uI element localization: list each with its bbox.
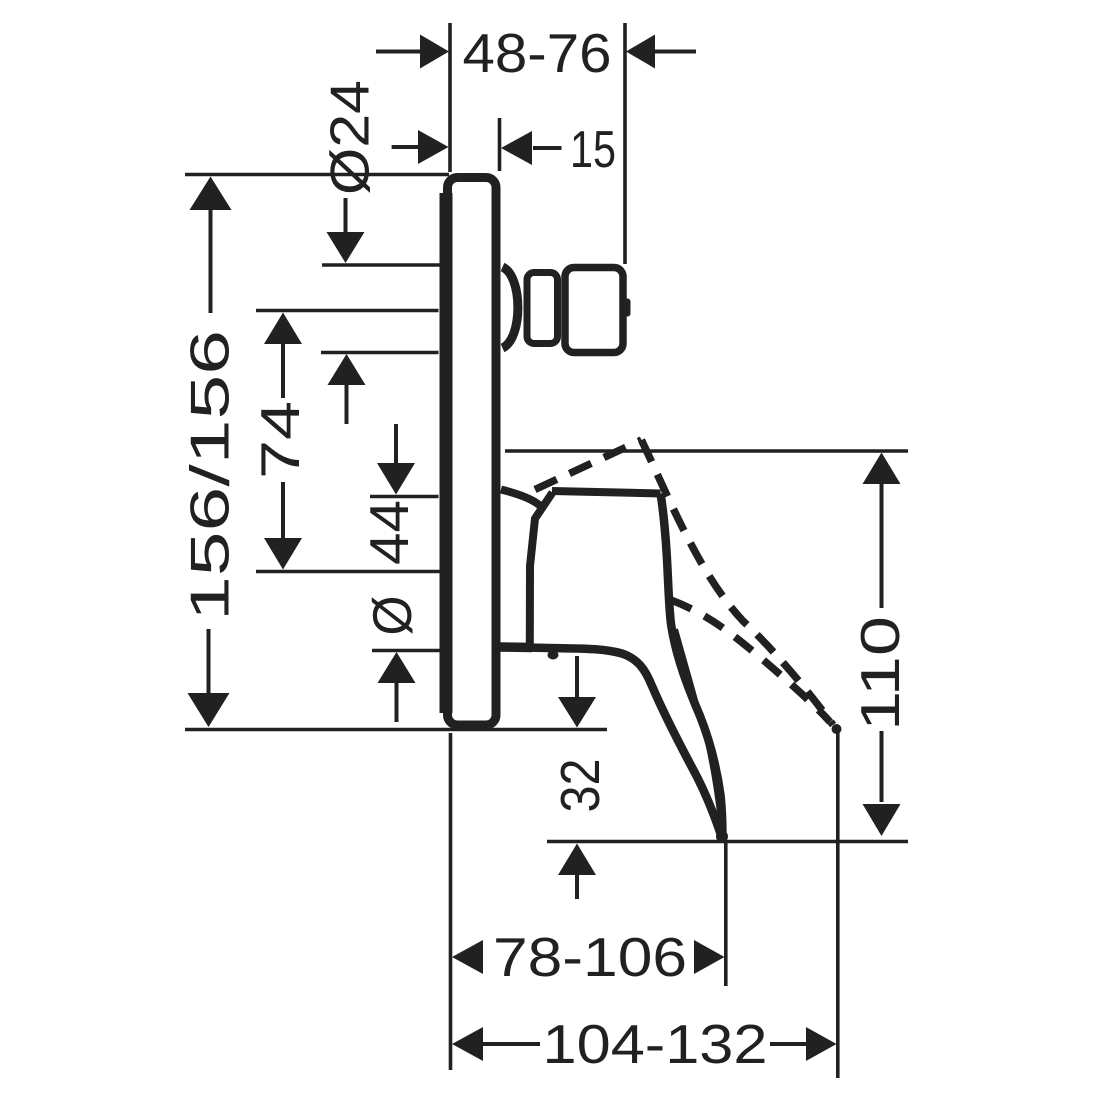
connector nub [624,299,631,317]
dim tail 104-132 right [770,1042,807,1046]
arrow dia24 down [327,232,365,263]
svg-text:44: 44 [358,500,420,565]
arrow 110 down [863,804,901,836]
extension line body bottom [372,649,440,653]
lever raised outer dashed [642,440,834,725]
arrow 48-76 left [420,35,449,69]
svg-text:156/156: 156/156 [179,330,241,621]
extension line lever bottom [547,840,908,844]
handle root nub [548,651,559,660]
extension line plate bottom [185,728,607,732]
arrow 32 down [558,697,596,728]
extension line 78-106 right [724,843,728,986]
shaft 110 bottom [880,731,884,802]
lever raised inner dashed [671,600,830,722]
arrow 156/156 up [190,177,232,211]
extension line lever top [505,449,908,453]
arrow 104-132 left [452,1027,483,1061]
arrow dia44 down [377,463,415,495]
extension line bottom left [449,733,453,1070]
shaft 110 top [880,483,884,608]
stub top curve [501,490,544,510]
arrow 74 up [264,313,302,345]
body bottom stub [496,642,532,652]
extension line body top [370,495,439,499]
lever raised top dashed [535,440,642,490]
handle bottom edge [530,648,722,839]
handle outer edge [661,494,723,840]
svg-text:Ø24: Ø24 [319,80,381,195]
wall flange bar [440,193,453,713]
extension line plate top [185,173,449,177]
shaft 156/156 top [209,207,213,313]
arrow 74 down [264,538,302,570]
arrow 48-76 right [626,35,655,69]
body top edge [552,491,661,494]
dim tail 104-132 left [482,1042,540,1046]
shaft dia44 down [394,424,398,464]
handle accent line [676,629,720,820]
handle tip [716,831,728,843]
connector collar [503,267,518,348]
svg-text:110: 110 [849,616,911,731]
dim tail 15 row-left [392,145,418,149]
shaft dia24 down [344,198,348,233]
svg-text:104-132: 104-132 [543,1013,768,1075]
arrow 156/156 down [188,693,230,727]
dim tail 15 [533,146,562,150]
shaft 74 bottom [281,482,285,539]
extension line connector axis [256,309,439,313]
svg-text:Ø: Ø [361,596,423,636]
connector body [565,268,623,353]
arrow dia44 up [378,652,416,683]
svg-text:78-106: 78-106 [493,926,687,988]
shaft 32 top [575,656,579,698]
svg-text:32: 32 [549,759,611,813]
arrow 78-106 left [452,940,483,974]
arrow 104-132 right [806,1027,837,1061]
extension line 48-76 left [448,23,452,172]
dim tail 48-76 right [655,50,696,54]
arrow dia24 up [328,354,366,385]
lever raised tip dot [832,724,842,734]
connector middle section [527,273,558,344]
svg-text:74: 74 [249,401,311,479]
svg-text:15: 15 [570,121,616,179]
arrow 78-106 right [694,940,725,974]
shaft dia44 up [395,682,399,722]
arrow 15 [501,131,532,165]
shaft 32 bottom [575,874,579,899]
shaft 156/156 bottom [207,629,211,696]
arrow 110 up [863,453,901,485]
extension line 15 [498,118,502,171]
extension line 104-132 right [836,731,840,1078]
dim tail 48-76 left [376,50,421,54]
extension line connector top [322,263,441,267]
extension line 48-76 right [623,23,627,264]
shaft 74 top [281,342,285,398]
extension line connector bottom [321,351,439,355]
extension line cartridge axis [256,570,440,574]
body left edge [530,493,553,645]
svg-text:48-76: 48-76 [463,22,612,84]
escutcheon plate [448,178,497,726]
shaft dia24 up [345,384,349,424]
arrow 32 up [558,844,596,876]
arrow 15 row-left [418,130,449,164]
